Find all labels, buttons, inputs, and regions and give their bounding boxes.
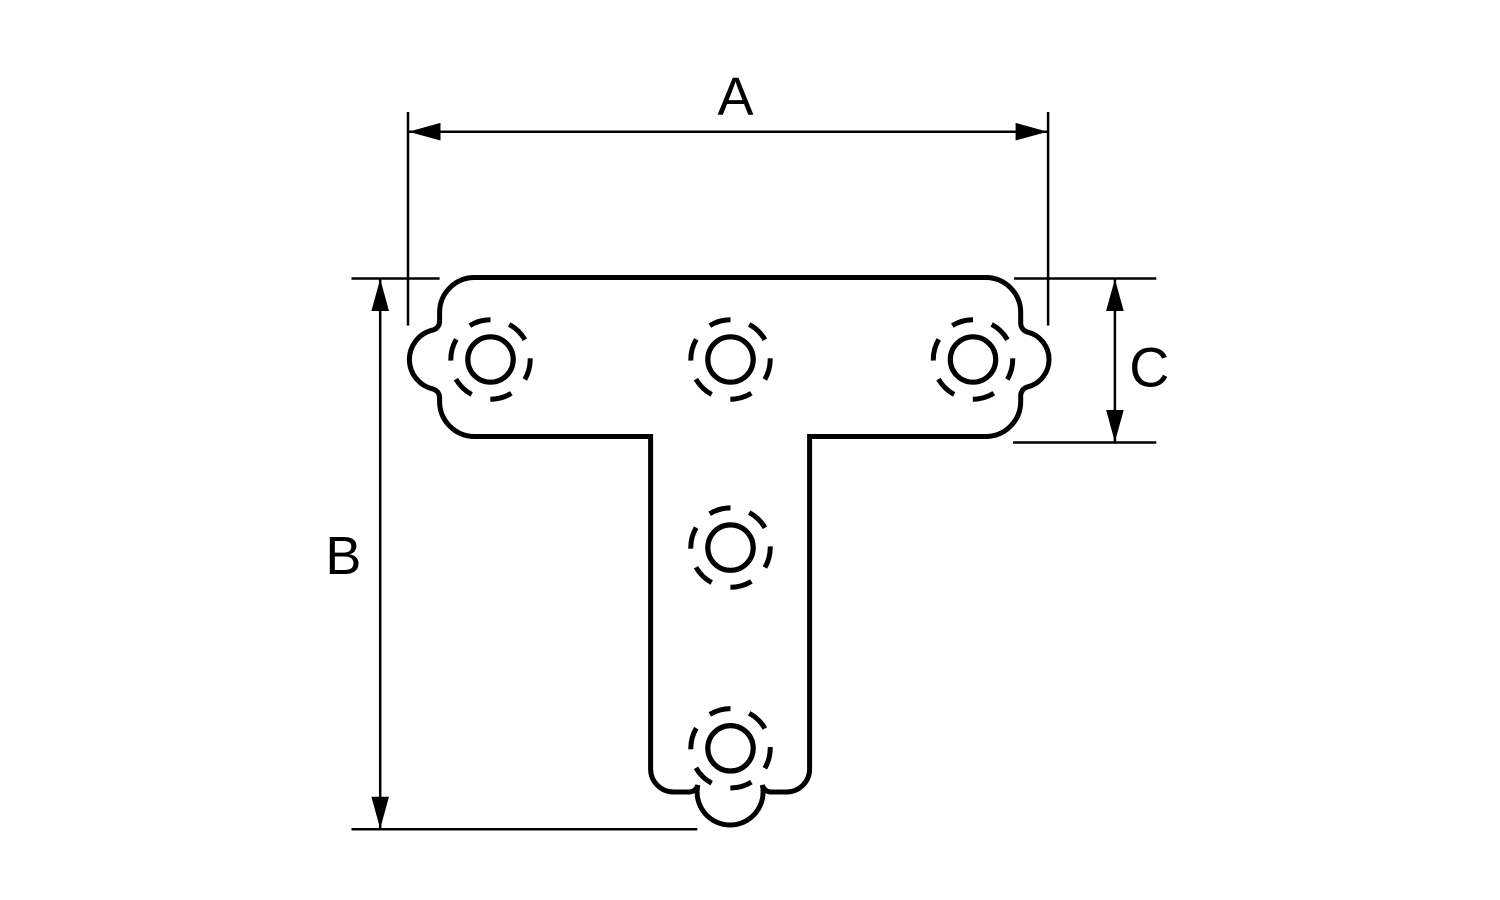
svg-text:B: B — [325, 526, 361, 586]
arrowhead C bottom — [1106, 410, 1124, 442]
hole 1 dashed countersink — [451, 320, 530, 399]
hole 2 dashed countersink — [691, 320, 770, 399]
hole 4 (stem upper) solid — [708, 525, 753, 570]
T-plate outline — [409, 278, 1049, 826]
dimension C extension line bottom — [1013, 441, 1156, 444]
hole 5 dashed countersink — [691, 709, 770, 788]
svg-text:C: C — [1129, 337, 1169, 399]
dimension C line — [1114, 279, 1117, 443]
hole 2 (center) solid — [708, 337, 753, 382]
svg-text:A: A — [717, 67, 753, 127]
dimension A extension line right — [1047, 112, 1050, 326]
dimension C extension line top — [1014, 277, 1156, 280]
hole 5 (stem lower) solid — [708, 726, 753, 771]
hole 3 (right) solid — [950, 337, 995, 382]
arrowhead B top — [371, 279, 389, 311]
dimension B extension line bottom — [352, 828, 698, 831]
arrowhead B bottom — [371, 797, 389, 829]
dimension B line — [379, 279, 382, 830]
hole 1 (left) solid — [468, 337, 513, 382]
dimension B extension line top — [352, 277, 440, 280]
dimension A extension line left — [407, 112, 410, 326]
arrowhead A left — [409, 123, 441, 141]
arrowhead C top — [1106, 279, 1124, 311]
arrowhead A right — [1016, 123, 1048, 141]
hole 4 dashed countersink — [691, 508, 770, 587]
hole 3 dashed countersink — [933, 320, 1012, 399]
dimension A line — [408, 130, 1048, 133]
